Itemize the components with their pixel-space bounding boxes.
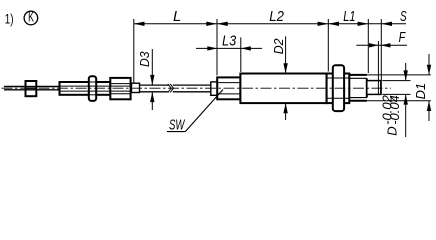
SW hex bushing <box>217 77 240 99</box>
D arrows <box>404 70 408 104</box>
D1 dimension <box>349 54 431 121</box>
D3 arrows <box>150 75 154 102</box>
svg-text:L: L <box>173 8 181 25</box>
F dimension line <box>356 44 407 46</box>
cable end collar <box>211 82 217 95</box>
F extension line <box>377 41 379 94</box>
svg-text:S: S <box>400 8 407 25</box>
D2 arrows <box>283 63 287 113</box>
locking pin D <box>367 81 381 95</box>
svg-text:1): 1) <box>5 11 14 27</box>
top dimension line <box>134 23 406 25</box>
L3 arrows <box>207 46 251 50</box>
L3 extension line right <box>240 37 242 72</box>
F arrows <box>369 43 390 47</box>
svg-text:F: F <box>399 29 406 46</box>
wire through block <box>26 87 37 90</box>
svg-text:SW: SW <box>169 116 186 133</box>
collar crossing lines <box>89 82 96 95</box>
extension line L2/L1 <box>327 19 329 72</box>
extension line L left <box>133 19 135 83</box>
sleeve bore lines <box>60 86 111 91</box>
adjuster hex facet and bore lines <box>110 84 130 94</box>
D dimension (pin dia with tolerance) <box>382 63 410 137</box>
threaded section <box>349 75 367 101</box>
cable break symbol <box>168 84 174 93</box>
main body D2 <box>240 74 326 104</box>
cable end fitting block <box>26 81 37 96</box>
hex nut centre facet dome <box>333 65 344 111</box>
D3 dimension <box>151 49 153 85</box>
svg-text:-0.04: -0.04 <box>387 95 402 125</box>
SW hex facet lines <box>217 83 240 94</box>
svg-text:L2: L2 <box>269 8 284 25</box>
adjuster hex nut on conduit <box>110 78 130 99</box>
centerline <box>2 87 392 89</box>
D2 dimension <box>285 36 287 73</box>
svg-text:D1: D1 <box>413 83 428 100</box>
svg-text:D3: D3 <box>137 51 152 67</box>
extension line L/L2 <box>216 19 218 75</box>
conduit sleeve <box>60 82 111 95</box>
circled K symbol <box>24 11 38 25</box>
wire rope left end <box>4 87 60 90</box>
extension line S right / pin face <box>380 19 382 94</box>
cable D3 <box>140 85 211 92</box>
svg-text:L3: L3 <box>222 33 237 50</box>
D1 arrows <box>427 65 431 111</box>
cable ferrule <box>132 83 140 92</box>
dimension arrows top <box>134 22 392 26</box>
svg-text:D: D <box>385 126 400 135</box>
svg-text:L1: L1 <box>343 8 355 25</box>
hex nut side slabs <box>327 74 350 104</box>
L3 dimension line <box>196 47 262 49</box>
extension line L1/S <box>367 19 369 73</box>
SW underline and leader <box>167 90 223 132</box>
label D -0.02/-0.04 <box>379 94 402 135</box>
svg-text:D2: D2 <box>271 38 286 55</box>
svg-text:K: K <box>28 9 34 25</box>
hex nut facet lines <box>327 78 350 98</box>
sleeve collar <box>89 76 96 101</box>
